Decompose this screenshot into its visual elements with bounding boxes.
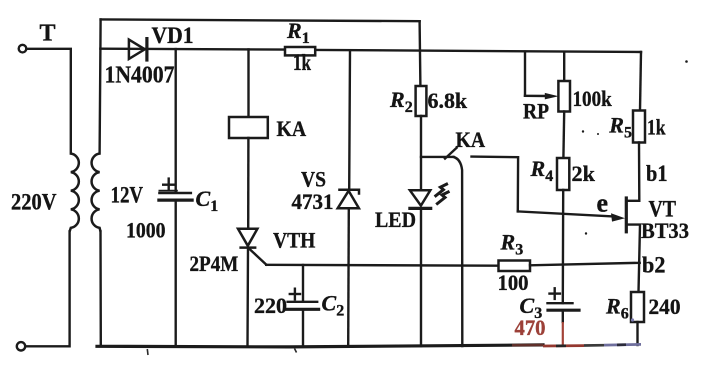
gate wire horizontal to R3 <box>266 264 498 267</box>
zener branch bottom wire <box>347 208 350 346</box>
terminal T top circle <box>19 45 27 53</box>
svg-text:100: 100 <box>498 270 529 295</box>
resistor R2 <box>416 86 427 116</box>
wire relay coil branch top <box>247 50 249 118</box>
resistor R5 <box>633 111 645 143</box>
zener diode VS <box>338 190 359 209</box>
svg-text:e: e <box>597 189 609 218</box>
wire secondary top lead <box>100 19 101 153</box>
wire right rail down from mid rail <box>640 52 641 111</box>
svg-text:1000: 1000 <box>126 218 166 243</box>
svg-text:1k: 1k <box>293 50 311 75</box>
svg-text:LED: LED <box>375 207 416 232</box>
resistor R3 <box>499 261 531 272</box>
wire thyristor cathode down <box>246 248 249 346</box>
svg-text:240: 240 <box>649 294 681 319</box>
wire primary bottom lead <box>25 232 69 347</box>
svg-text:VTH: VTH <box>273 228 315 253</box>
resistor R6 <box>631 292 644 322</box>
diode VD1 <box>129 39 147 60</box>
capacitor C1 lead bottom <box>174 201 176 346</box>
wire R2 to LED <box>420 116 422 190</box>
RP wiper branch <box>525 52 559 100</box>
svg-text:BT33: BT33 <box>641 218 689 243</box>
capacitor C2 lead top <box>302 265 304 302</box>
LED arrows <box>435 184 450 205</box>
bottom rail red overlay <box>512 344 543 347</box>
terminal T bottom circle <box>17 342 25 350</box>
wire R5 to b1 <box>638 143 641 201</box>
mid rectified rail left segment <box>100 48 285 51</box>
RP top lead <box>563 52 565 81</box>
svg-text:VD1: VD1 <box>152 23 194 48</box>
wire secondary bottom lead <box>99 232 102 346</box>
top rail <box>101 19 420 21</box>
capacitor C3 lead bottom black part <box>562 311 564 322</box>
capacitor C3 lead bottom red part <box>562 322 564 346</box>
tick below rail mid <box>295 349 297 353</box>
capacitor C1 plates <box>159 193 192 200</box>
wire LED cathode down <box>420 208 422 346</box>
capacitor C2 plates <box>287 302 319 310</box>
transistor b2 lead <box>628 225 641 292</box>
svg-text:4731: 4731 <box>292 189 334 214</box>
svg-text:T: T <box>40 21 56 47</box>
wire top-right corner down to R2 <box>418 21 421 86</box>
KA switch blade <box>445 148 457 159</box>
svg-text:12V: 12V <box>111 183 144 208</box>
bottom rail red segment <box>543 344 584 347</box>
emitter arrow <box>611 213 625 221</box>
relay coil KA <box>229 117 268 138</box>
emitter wire <box>518 211 612 216</box>
svg-text:2P4M: 2P4M <box>190 251 239 276</box>
gate wire right segment to b2 node <box>530 263 640 266</box>
KA fixed contact wire <box>472 157 519 212</box>
svg-text:2k: 2k <box>572 161 596 186</box>
capacitor C3 polarity mark <box>550 288 560 299</box>
wire R4 to C3 <box>562 190 565 303</box>
wire RP to R4 <box>562 112 565 159</box>
svg-text:6.8k: 6.8k <box>428 88 468 113</box>
svg-text:100k: 100k <box>573 86 613 111</box>
svg-text:RP: RP <box>523 99 549 124</box>
capacitor C1 polarity mark <box>159 179 177 191</box>
svg-text:KA: KA <box>456 127 486 152</box>
transistor b1 lead <box>628 200 640 202</box>
svg-text:b2: b2 <box>642 253 665 278</box>
capacitor C1 lead top <box>174 49 176 192</box>
wire coil to thyristor anode <box>247 138 250 229</box>
svg-text:1k: 1k <box>647 115 666 140</box>
LED diode <box>410 190 431 208</box>
speck dots <box>582 60 688 235</box>
wire R6 to rail <box>636 322 638 345</box>
capacitor C3 plates <box>548 303 580 310</box>
bottom rail black part <box>97 345 543 347</box>
svg-text:220: 220 <box>254 293 287 318</box>
svg-text:220V: 220V <box>11 190 57 215</box>
capacitor C2 polarity mark <box>290 289 300 300</box>
wire from top terminal to transformer primary <box>27 49 71 154</box>
bottom rail blue segment <box>604 343 641 346</box>
KA switch stub <box>421 156 454 158</box>
tick below rail left <box>146 349 149 355</box>
svg-text:KA: KA <box>277 116 307 141</box>
zener VS branch top wire <box>348 50 351 189</box>
transformer secondary winding <box>92 154 101 232</box>
resistor R1 <box>285 47 315 55</box>
resistor R4 <box>557 158 569 190</box>
transistor VT base bar <box>625 198 628 232</box>
svg-text:VS: VS <box>301 167 326 192</box>
blue speck <box>631 318 634 321</box>
capacitor C2 lead bottom <box>302 310 304 346</box>
mid rectified rail right segment <box>315 50 641 52</box>
svg-text:b1: b1 <box>646 161 668 186</box>
transformer primary winding <box>70 154 79 232</box>
KA switch wire down to rail <box>454 157 463 346</box>
svg-text:470: 470 <box>515 315 546 340</box>
svg-text:1N4007: 1N4007 <box>105 63 175 89</box>
bottom rail mid dark segment <box>584 344 604 347</box>
potentiometer RP <box>558 81 570 112</box>
thyristor VTH <box>238 229 266 265</box>
